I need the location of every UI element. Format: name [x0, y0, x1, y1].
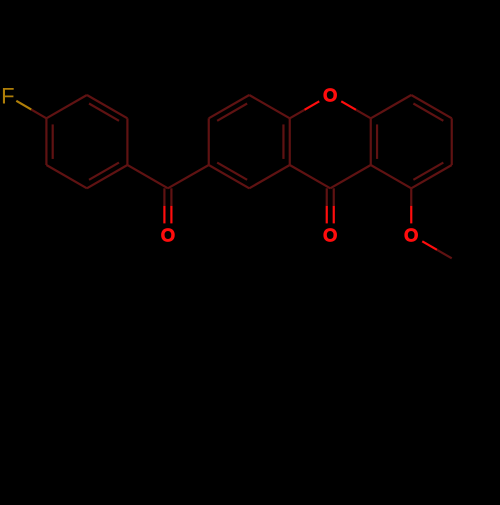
svg-text:O: O	[404, 225, 418, 246]
svg-text:O: O	[323, 225, 337, 246]
svg-text:F: F	[1, 83, 14, 108]
svg-text:O: O	[323, 85, 337, 106]
svg-text:O: O	[161, 225, 175, 246]
